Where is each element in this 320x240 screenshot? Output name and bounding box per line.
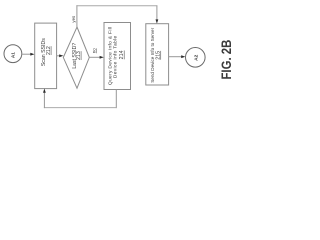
process box Send Device Info 215: [146, 24, 169, 85]
svg-text:Device Info Table: Device Info Table: [113, 36, 119, 79]
wire box 215 to connector A2: [169, 56, 183, 58]
process box Scan SSIDs 212: [35, 23, 57, 89]
arrowhead into diamond 213: [59, 54, 63, 57]
svg-text:214: 214: [119, 50, 125, 59]
arrowhead into box 212 bottom: [43, 89, 46, 93]
wire yes branch down into box 215: [156, 6, 158, 21]
svg-text:215: 215: [156, 51, 162, 60]
svg-text:A2: A2: [193, 54, 199, 60]
svg-text:FIG. 2B: FIG. 2B: [218, 40, 235, 80]
svg-text:212: 212: [46, 46, 52, 55]
svg-text:Query Device Info & Fill: Query Device Info & Fill: [107, 27, 113, 86]
arrowhead into box 214: [100, 56, 104, 59]
arrowhead into box 212: [30, 53, 34, 56]
wire box 212 to diamond 213: [57, 55, 61, 57]
decision diamond Last SSID? 213: [63, 27, 89, 88]
wire yes branch top horizontal: [76, 5, 157, 7]
loop wire up into box 212 bottom: [43, 92, 45, 109]
connector A1: [4, 45, 22, 63]
loop wire bottom horizontal: [44, 107, 117, 109]
wire yes branch up from diamond top: [76, 5, 78, 27]
svg-text:yes: yes: [71, 15, 76, 23]
arrowhead into box 215 top: [156, 19, 159, 23]
wire diamond to box 214 (no branch): [89, 56, 101, 58]
loop wire down from box 214 bottom: [115, 90, 117, 109]
svg-text:213: 213: [76, 51, 82, 60]
svg-text:A1: A1: [10, 52, 15, 58]
svg-text:no: no: [91, 48, 96, 53]
process box Query Device Info 214: [104, 23, 131, 90]
connector A2: [186, 48, 206, 68]
wire A1 to box 212: [22, 53, 32, 55]
svg-text:Send Device Info to Server: Send Device Info to Server: [150, 27, 155, 82]
arrowhead into connector A2: [181, 55, 185, 58]
